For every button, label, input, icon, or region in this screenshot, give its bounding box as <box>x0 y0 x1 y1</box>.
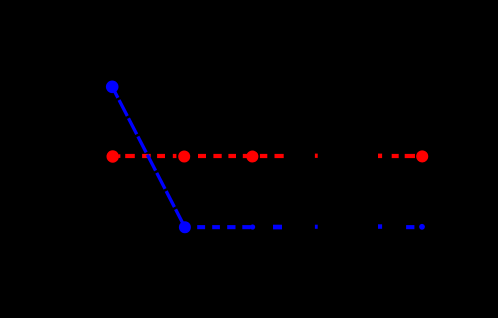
red marker point 3 (large circle) <box>246 151 258 163</box>
red series horizontal dashes <box>119 154 415 159</box>
red marker point 2 (large circle) <box>178 151 190 163</box>
red marker point 1 (large circle) <box>107 150 119 162</box>
blue marker point 2 (large circle) <box>179 221 191 233</box>
blue marker point 1 (large circle) <box>106 81 119 94</box>
blue marker point 6 (small circle) <box>419 224 425 230</box>
blue series horizontal dashes <box>197 224 414 229</box>
red marker point 6 (large circle) <box>416 150 428 162</box>
blue marker point 3 (small circle) <box>250 224 255 229</box>
blue series dashed diagonal segment <box>112 87 185 228</box>
